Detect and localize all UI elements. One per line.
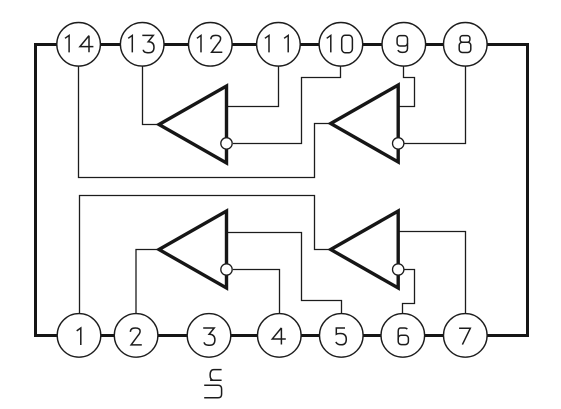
pin 13 number label <box>128 35 154 52</box>
pin 2 circle <box>114 314 158 358</box>
inverting input bubble of G1 <box>221 138 232 149</box>
pin 10 circle <box>319 23 363 67</box>
pin 6 circle <box>381 314 425 358</box>
pin 12 number label <box>197 35 222 52</box>
pin 14 circle <box>57 23 101 67</box>
wire pin1 to U1 comparator 2 output (tip) <box>80 196 331 314</box>
pin 11 circle <box>257 23 301 67</box>
pin 5 circle <box>320 314 364 358</box>
pin 1 number label <box>77 328 81 345</box>
inverting input bubble of G4 <box>393 264 404 275</box>
wire pin2 to U1 comparator 1 output (tip) <box>136 250 159 314</box>
pin 2 number label <box>130 328 141 345</box>
supply voltage label Un (rotated) at pin 3 <box>204 385 221 398</box>
wire pin14 to U1 comparator 3 output (tip) <box>79 67 331 178</box>
pin 4 circle <box>258 314 302 358</box>
inverting input bubble of G3 <box>221 264 232 275</box>
op-amp G4 comparator 2 triangle <box>331 211 399 288</box>
pin 14 number label <box>65 35 93 52</box>
pin 10 number label <box>327 35 353 53</box>
wire pin9 to U1 comparator 3 non-inverting input <box>398 67 414 107</box>
IC package outline U1 body <box>36 45 528 336</box>
wire pin7 to U1 comparator 2 non-inverting input <box>398 232 465 314</box>
wire pin4 to U1 comparator 1 inverting input (bubble) <box>233 270 280 314</box>
op-amp G3 comparator 1 triangle <box>159 211 227 288</box>
op-amp G1 comparator 4 triangle <box>159 86 227 163</box>
pin 8 number label <box>459 36 471 53</box>
pin 9 circle <box>382 23 426 67</box>
pin 7 circle <box>444 314 488 358</box>
op-amp G2 comparator 3 triangle <box>331 85 399 162</box>
pin 7 number label <box>459 328 470 344</box>
wire pin13 to U1 comparator 4 output (tip) <box>143 67 160 125</box>
inverting input bubble of G2 <box>393 138 404 149</box>
wire pin5 to U1 comparator 1 non-inverting input <box>227 233 342 314</box>
wire pin8 to U1 comparator 3 inverting input (bubble) <box>404 67 466 144</box>
wire pin10 to U1 comparator 4 inverting input (bubble) <box>233 67 341 144</box>
pin 13 circle <box>120 23 164 67</box>
pin 9 number label <box>397 36 407 53</box>
wire pin6 to U1 comparator 2 inverting input (bubble) <box>403 270 415 314</box>
pin 6 number label <box>398 328 408 345</box>
pin 8 circle <box>444 23 488 67</box>
pin 1 circle <box>57 314 101 358</box>
pin 11 number label <box>265 35 288 52</box>
pin 3 circle <box>187 314 231 358</box>
pin 5 number label <box>336 328 346 345</box>
wire pin11 to U1 comparator 4 non-inverting input <box>227 67 279 107</box>
pin 12 circle <box>189 23 233 67</box>
pin 3 number label <box>203 328 215 345</box>
pin 4 number label <box>272 328 286 345</box>
